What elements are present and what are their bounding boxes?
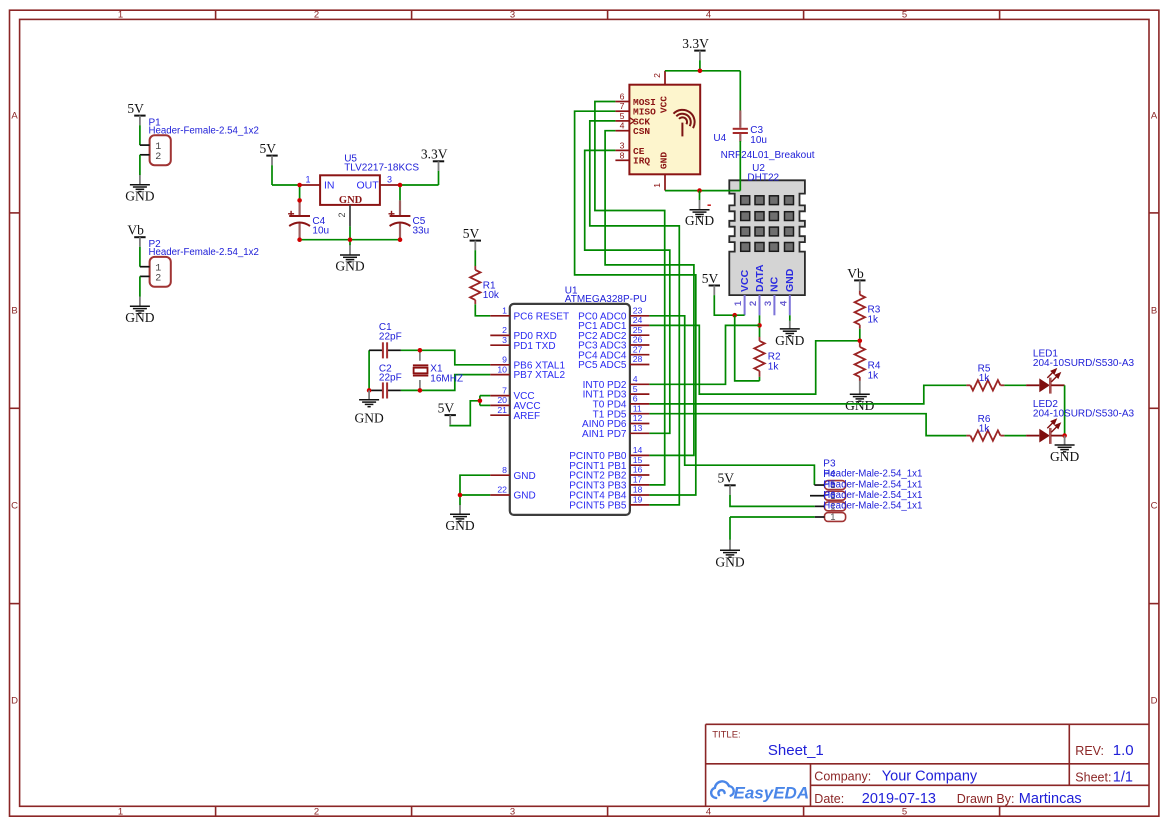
svg-text:2: 2 <box>502 325 507 335</box>
svg-text:VCC: VCC <box>659 96 670 113</box>
U1 pin 12 AIN0 PD6 <box>582 413 649 430</box>
svg-text:3: 3 <box>510 806 515 817</box>
resistor R1 10k <box>470 266 500 304</box>
U1 pin 24 PC1 ADC1 <box>578 315 649 332</box>
U1 pin 6 T0 PD4 <box>593 394 650 411</box>
voltage regulator U5 TLV2217-18KCS <box>320 154 419 207</box>
wire U4 MOSI to U1 PB3 <box>595 102 665 485</box>
wire U1 T0 PD4 to R5 <box>649 385 966 404</box>
U5 pin 1 <box>300 184 321 186</box>
svg-text:IRQ: IRQ <box>633 156 650 167</box>
wire U2 GND pin <box>789 315 791 321</box>
wire Vb to R3 <box>859 289 861 292</box>
svg-text:Martincas: Martincas <box>1019 791 1082 807</box>
resistor R6 1k <box>966 414 1004 441</box>
svg-text:2: 2 <box>155 273 161 284</box>
svg-text:D: D <box>11 696 18 707</box>
svg-text:17: 17 <box>633 475 643 485</box>
svg-text:5: 5 <box>902 10 907 21</box>
U1 pin 3 PD1 TXD <box>490 335 555 352</box>
svg-text:Vb: Vb <box>127 223 144 238</box>
U1 pin 7 VCC <box>490 385 534 402</box>
wire U5 pin2 to ground rail <box>349 226 351 239</box>
header P5 Header-Male-2.54_1x1 <box>815 480 923 513</box>
svg-text:6: 6 <box>620 92 625 102</box>
svg-text:7: 7 <box>620 101 625 111</box>
svg-text:TITLE:: TITLE: <box>712 730 741 741</box>
U1 pin 28 PC5 ADC5 <box>578 354 649 371</box>
svg-text:GND: GND <box>775 333 804 348</box>
svg-text:20: 20 <box>497 395 507 405</box>
U2 grid squares <box>741 196 794 252</box>
wire R5 to LED1 <box>1004 384 1026 386</box>
U1 pin 11 T1 PD5 <box>593 403 650 420</box>
svg-text:3: 3 <box>763 301 774 306</box>
svg-text:4: 4 <box>706 806 711 817</box>
power symbol 5V (U1 VCC) <box>438 401 456 425</box>
svg-text:PB7 XTAL2: PB7 XTAL2 <box>514 370 566 381</box>
svg-text:2: 2 <box>314 806 319 817</box>
junction dots crystal <box>418 348 423 353</box>
capacitor C4 10u <box>288 200 329 239</box>
U1 pin 25 PC2 ADC2 <box>578 325 649 342</box>
capacitor C3 10u <box>733 110 767 145</box>
microcontroller U1 ATMEGA328P-PU <box>510 286 647 515</box>
power symbol 5V (R1 top) <box>463 226 481 250</box>
wire U4 CSN to U1 PB0 <box>605 131 694 456</box>
svg-text:1k: 1k <box>868 314 880 325</box>
power symbol 3.3V (U5 out) <box>421 147 448 171</box>
svg-text:16: 16 <box>633 465 643 475</box>
svg-text:28: 28 <box>633 354 643 364</box>
power symbol 5V (P1 supply) <box>127 101 145 125</box>
svg-text:1: 1 <box>733 300 744 306</box>
ground symbol (P1) <box>125 175 154 204</box>
wire R3 to junction <box>859 329 861 341</box>
svg-text:TLV2217-18KCS: TLV2217-18KCS <box>344 163 419 174</box>
wire 3.3V rail <box>699 60 701 71</box>
svg-text:GND: GND <box>514 491 536 502</box>
svg-text:15: 15 <box>633 455 643 465</box>
ground symbol (R4) <box>845 381 874 413</box>
svg-text:6: 6 <box>633 394 638 404</box>
svg-text:4: 4 <box>633 374 638 384</box>
svg-text:VCC: VCC <box>739 269 751 292</box>
svg-text:GND: GND <box>339 195 363 206</box>
svg-text:5: 5 <box>620 111 625 121</box>
junction dots U5 area <box>297 183 302 188</box>
U4 pin 7 MISO <box>615 101 656 117</box>
wire C3 top <box>739 71 741 111</box>
svg-text:10u: 10u <box>750 135 767 146</box>
svg-text:GND: GND <box>685 213 714 228</box>
svg-text:13: 13 <box>633 423 643 433</box>
U4 pin 8 IRQ <box>615 150 650 166</box>
svg-text:7: 7 <box>502 385 507 395</box>
svg-text:NC: NC <box>769 276 781 292</box>
svg-text:18: 18 <box>633 485 643 495</box>
wire U5 OUT to 3.3V <box>400 184 439 186</box>
svg-text:Drawn By:: Drawn By: <box>957 792 1015 806</box>
ground symbol (U5) <box>335 245 364 273</box>
U4 SCK clock mark <box>629 117 634 124</box>
svg-text:3: 3 <box>510 10 515 21</box>
svg-text:27: 27 <box>633 344 643 354</box>
U4 pin 2 VCC <box>652 71 670 113</box>
svg-text:Company:: Company: <box>814 770 871 784</box>
svg-text:Date:: Date: <box>814 792 844 806</box>
svg-text:5V: 5V <box>463 226 480 241</box>
svg-text:NRF24L01_Breakout: NRF24L01_Breakout <box>721 150 815 161</box>
svg-text:PC6 RESET: PC6 RESET <box>514 311 570 322</box>
wire ground rail under U5 <box>300 239 400 241</box>
svg-text:GND: GND <box>715 555 744 570</box>
svg-text:1k: 1k <box>979 424 991 435</box>
svg-text:16MHZ: 16MHZ <box>430 373 463 384</box>
wire R6 to LED2 <box>1004 435 1026 437</box>
U2 pin 2 DATA <box>748 264 766 315</box>
header P2 Header-Female-2.54_1x2 <box>140 239 259 287</box>
wire U4 CE to U1 PD7 <box>585 150 670 433</box>
svg-text:A: A <box>11 111 18 122</box>
wire R2 bottom to 5V <box>735 315 760 381</box>
wire P1 pin2 to GND <box>139 155 141 175</box>
svg-text:22pF: 22pF <box>379 331 402 342</box>
svg-text:4: 4 <box>778 300 789 306</box>
svg-text:GND: GND <box>659 152 670 169</box>
wire LED1 to LED2 cathode <box>1064 385 1066 435</box>
svg-text:10: 10 <box>497 364 507 374</box>
wire crystal left vertical <box>368 350 370 390</box>
svg-text:GND: GND <box>335 259 364 274</box>
svg-text:Your Company: Your Company <box>882 769 978 785</box>
svg-text:DHT22: DHT22 <box>747 172 779 183</box>
ground symbol (P3) <box>715 540 744 570</box>
svg-text:GND: GND <box>514 471 536 482</box>
svg-text:26: 26 <box>633 335 643 345</box>
capacitor C5 33u <box>389 200 430 239</box>
svg-text:9: 9 <box>502 355 507 365</box>
ground symbol (C1 C2) <box>354 390 383 425</box>
svg-text:10u: 10u <box>312 226 329 237</box>
U2 labels <box>747 163 779 184</box>
svg-text:1: 1 <box>830 512 835 523</box>
U4 pin 3 CE <box>615 140 644 156</box>
wire DATA to U1 INT0 PD2 <box>649 325 759 384</box>
U1 pin 19 PCINT5 PB5 <box>569 495 649 512</box>
wire C4 branch <box>299 185 301 200</box>
svg-text:1.0: 1.0 <box>1113 742 1134 759</box>
svg-text:12: 12 <box>633 413 643 423</box>
svg-text:Sheet_1: Sheet_1 <box>768 742 824 759</box>
svg-text:10k: 10k <box>483 290 500 301</box>
ground symbol (U4) <box>685 200 714 228</box>
resistor R4 1k <box>855 343 881 381</box>
power symbol 5V (P3 supply) <box>717 471 735 495</box>
svg-text:IN: IN <box>324 180 335 192</box>
U5 pin 2 (GND) <box>349 205 351 227</box>
svg-text:19: 19 <box>633 495 643 505</box>
svg-text:CSN: CSN <box>633 126 650 137</box>
resistor R5 1k <box>966 364 1004 391</box>
power symbol 5V (U2 supply) <box>702 271 720 295</box>
U1 pin 18 PCINT4 PB4 <box>569 485 649 502</box>
U1 pin 21 AREF <box>490 405 540 422</box>
wire 5V to U5 IN <box>271 165 273 185</box>
U1 pin 10 PB7 XTAL2 <box>490 364 565 381</box>
svg-text:2: 2 <box>337 212 347 217</box>
svg-text:REV:: REV: <box>1075 744 1104 758</box>
wire U4 pin1 to GND rail and C3 <box>665 190 740 192</box>
wire crystal bottom rail to U1 pin10 <box>401 375 490 391</box>
svg-text:EasyEDA: EasyEDA <box>734 784 810 803</box>
svg-text:PD1 TXD: PD1 TXD <box>514 341 556 352</box>
svg-text:Header-Male-2.54_1x1: Header-Male-2.54_1x1 <box>823 469 922 480</box>
svg-text:2019-07-13: 2019-07-13 <box>862 791 936 807</box>
U4 pin 6 MOSI <box>615 92 655 108</box>
svg-text:U4: U4 <box>713 133 726 144</box>
U1 pin 17 PCINT3 PB3 <box>569 475 649 492</box>
svg-text:1k: 1k <box>979 373 991 384</box>
svg-text:OUT: OUT <box>357 180 380 192</box>
svg-text:Header-Male-2.54_1x1: Header-Male-2.54_1x1 <box>823 501 922 512</box>
svg-text:3.3V: 3.3V <box>421 147 448 162</box>
wire DATA node <box>759 315 761 337</box>
svg-text:2: 2 <box>155 152 161 163</box>
U1 pin 22 GND <box>490 485 535 502</box>
svg-text:P6: P6 <box>823 490 836 501</box>
svg-text:GND: GND <box>445 518 474 533</box>
svg-text:GND: GND <box>354 411 383 426</box>
U1 pin 23 PC0 ADC0 <box>578 306 649 323</box>
svg-text:Vb: Vb <box>847 266 864 281</box>
svg-text:P4: P4 <box>823 469 836 480</box>
header P4 Header-Male-2.54_1x1 <box>810 469 922 502</box>
svg-text:3: 3 <box>620 140 625 150</box>
svg-text:204-10SURD/S530-A3: 204-10SURD/S530-A3 <box>1033 409 1135 420</box>
RF module U4 NRF24L01_Breakout <box>629 85 814 175</box>
svg-text:8: 8 <box>620 150 625 160</box>
svg-text:1: 1 <box>118 10 123 21</box>
LED LED2 204-10SURD/S530-A3 <box>1026 399 1134 444</box>
U1 pin 13 AIN1 PD7 <box>582 423 649 440</box>
svg-text:25: 25 <box>633 325 643 335</box>
svg-text:22pF: 22pF <box>379 373 402 384</box>
svg-text:1: 1 <box>502 306 507 316</box>
power symbol 5V (U5 in) <box>259 141 277 165</box>
ground symbol (LEDs) <box>1050 436 1079 464</box>
wire divider to U1 PC1 ADC1 <box>649 325 859 394</box>
svg-text:21: 21 <box>497 405 507 415</box>
svg-text:Header-Male-2.54_1x1: Header-Male-2.54_1x1 <box>823 479 922 490</box>
svg-text:14: 14 <box>633 445 643 455</box>
header P6 Header-Male-2.54_1x1 <box>815 490 923 523</box>
svg-text:5V: 5V <box>702 271 719 286</box>
wire 5V to P3 header 3 <box>730 495 815 507</box>
wire GND to P3 header 4 <box>730 516 815 518</box>
wire C5 branch <box>399 185 401 200</box>
U1 pin 9 PB6 XTAL1 <box>490 355 565 372</box>
sensor U2 DHT22 body <box>729 180 805 295</box>
junction dot LED2 cathode <box>1062 433 1067 438</box>
svg-text:5V: 5V <box>438 401 455 416</box>
wire P2 pin2 to GND <box>139 276 141 296</box>
svg-text:5V: 5V <box>259 141 276 156</box>
svg-text:5V: 5V <box>127 101 144 116</box>
svg-text:AIN1 PD7: AIN1 PD7 <box>582 429 627 440</box>
svg-text:1: 1 <box>652 183 662 188</box>
svg-text:4: 4 <box>620 121 625 131</box>
U4 pin 5 SCK <box>615 111 650 127</box>
junction dot GND8/22 <box>458 493 463 498</box>
ground symbol (U2) <box>775 321 804 349</box>
U1 pin 2 PD0 RXD <box>490 325 557 342</box>
svg-text:8: 8 <box>502 465 507 475</box>
U4 pin 4 CSN <box>615 121 650 137</box>
svg-text:3.3V: 3.3V <box>682 36 709 51</box>
svg-text:1: 1 <box>118 806 123 817</box>
svg-text:22: 22 <box>497 485 507 495</box>
power symbol Vb (P2 supply) <box>127 223 145 247</box>
wire U4 MISO to U1 PB4 <box>575 111 696 495</box>
EasyEDA logo <box>711 781 809 802</box>
resistor R3 1k <box>855 291 881 329</box>
U2 pin 4 GND <box>778 268 796 315</box>
svg-text:D: D <box>1151 696 1158 707</box>
wire Vb to P2 pin1 <box>139 247 141 267</box>
U1 pin 4 INT0 PD2 <box>583 374 650 391</box>
capacitor C2 22pF <box>369 363 402 398</box>
wire crystal top rail to U1 pin9 <box>401 350 490 365</box>
svg-text:DATA: DATA <box>754 264 766 292</box>
svg-text:3: 3 <box>387 175 392 185</box>
svg-text:C: C <box>11 501 18 512</box>
U1 pin 27 PC4 ADC4 <box>578 344 649 361</box>
wire U1 T1 PD5 to R6 <box>649 414 966 436</box>
svg-text:P3: P3 <box>823 458 836 469</box>
svg-text:5V: 5V <box>717 471 734 486</box>
junction dot 3.3V <box>698 69 703 74</box>
svg-text:PC5 ADC5: PC5 ADC5 <box>578 360 627 371</box>
svg-text:1k: 1k <box>868 370 880 381</box>
svg-text:24: 24 <box>633 315 643 325</box>
svg-text:2: 2 <box>652 73 662 78</box>
svg-text:AREF: AREF <box>514 411 541 422</box>
svg-text:GND: GND <box>125 189 154 204</box>
svg-text:33u: 33u <box>413 226 430 237</box>
LED LED1 204-10SURD/S530-A3 <box>1026 349 1134 394</box>
svg-text:GND: GND <box>125 310 154 325</box>
svg-text:5: 5 <box>633 384 638 394</box>
capacitor C1 22pF <box>369 322 402 358</box>
title block <box>706 724 1149 807</box>
wire U1 GND pins <box>460 475 490 495</box>
wire 5V to P1 pin1 <box>139 125 141 145</box>
U1 pin 26 PC3 ADC3 <box>578 335 649 352</box>
svg-text:3: 3 <box>502 335 507 345</box>
ground symbol (U1) <box>445 505 474 533</box>
svg-text:GND: GND <box>784 268 796 292</box>
svg-text:4: 4 <box>706 10 711 21</box>
svg-text:204-10SURD/S530-A3: 204-10SURD/S530-A3 <box>1033 358 1135 369</box>
wire R1 to U1 pin1 <box>475 304 490 316</box>
wire 5V to R1 <box>474 250 476 266</box>
power symbol Vb (R3 top) <box>847 266 865 290</box>
svg-text:Header-Female-2.54_1x2: Header-Female-2.54_1x2 <box>149 125 259 136</box>
junction dot R3/R4 <box>858 339 863 344</box>
U1 pin 15 PCINT1 PB1 <box>569 455 649 472</box>
svg-text:C: C <box>1151 501 1158 512</box>
U4 pin 1 GND <box>652 152 670 191</box>
U1 pin 5 INT1 PD3 <box>583 384 650 401</box>
svg-text:B: B <box>1151 306 1157 317</box>
svg-text:1/1: 1/1 <box>1113 770 1133 786</box>
wire 5V to VCC/AVCC <box>450 401 480 426</box>
wire ground stub <box>349 240 351 246</box>
svg-text:Header-Male-2.54_1x1: Header-Male-2.54_1x1 <box>823 490 922 501</box>
svg-text:23: 23 <box>633 306 643 316</box>
crystal X1 16MHZ <box>413 350 463 390</box>
svg-text:GND: GND <box>845 398 874 413</box>
stray red tick <box>708 204 711 206</box>
U2 pin 3 NC <box>763 276 781 315</box>
svg-text:Sheet:: Sheet: <box>1075 771 1111 785</box>
U5 pin 3 <box>380 184 400 186</box>
U1 pin 1 PC6 RESET <box>490 306 569 323</box>
svg-text:Header-Female-2.54_1x2: Header-Female-2.54_1x2 <box>149 247 259 258</box>
wire 5V to U2 VCC <box>714 295 744 315</box>
U4 antenna icon <box>674 110 695 137</box>
junction dot 5V/R2 <box>732 313 737 318</box>
svg-text:5: 5 <box>902 806 907 817</box>
junction dot U4 gnd <box>697 188 702 193</box>
U2 pin 1 VCC <box>733 269 751 315</box>
ground symbol (P2) <box>125 297 154 326</box>
svg-text:2: 2 <box>314 10 319 21</box>
svg-text:PCINT5 PB5: PCINT5 PB5 <box>569 501 627 512</box>
svg-text:B: B <box>11 306 17 317</box>
U1 pin 16 PCINT2 PB2 <box>569 465 649 482</box>
U1 pin 8 GND <box>490 465 535 482</box>
svg-text:2: 2 <box>748 301 759 306</box>
junction dot DATA <box>757 323 762 328</box>
svg-text:1: 1 <box>305 175 310 185</box>
svg-text:P5: P5 <box>823 480 836 491</box>
U1 pin 14 PCINT0 PB0 <box>569 445 649 462</box>
header P3 Header-Male-2.54_1x1 <box>814 458 922 491</box>
svg-text:11: 11 <box>633 403 642 413</box>
U1 pin 20 AVCC <box>490 395 540 412</box>
wire U1 PC0 to P3 header 1 <box>649 316 814 485</box>
resistor R2 1k <box>754 337 781 381</box>
wire U4 SCK to U1 PB5 <box>590 121 680 505</box>
svg-text:GND: GND <box>1050 449 1079 464</box>
svg-text:A: A <box>1151 111 1158 122</box>
junction dot VCC <box>478 399 483 404</box>
power symbol 3.3V (U4 supply) <box>682 36 709 60</box>
header P1 Header-Female-2.54_1x2 <box>140 118 259 166</box>
svg-text:ATMEGA328P-PU: ATMEGA328P-PU <box>565 294 647 305</box>
svg-text:1k: 1k <box>768 361 780 372</box>
